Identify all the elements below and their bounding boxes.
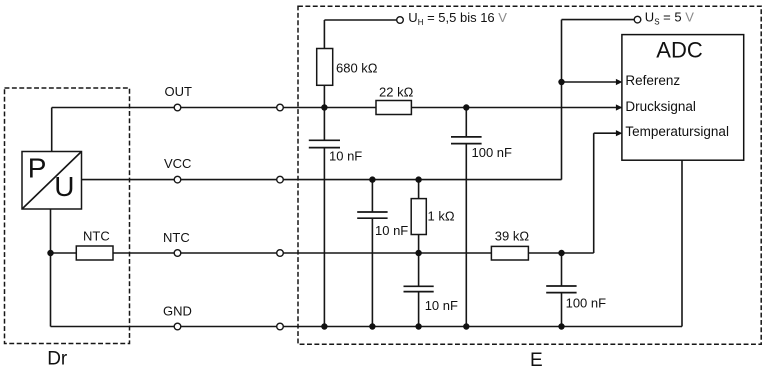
svg-text:100 nF: 100 nF <box>472 145 513 160</box>
svg-text:Drucksignal: Drucksignal <box>625 99 696 114</box>
svg-text:22 kΩ: 22 kΩ <box>379 84 414 99</box>
svg-text:US = 5 V: US = 5 V <box>645 10 694 27</box>
svg-text:10 nF: 10 nF <box>375 223 408 238</box>
svg-text:E: E <box>530 350 543 368</box>
svg-text:Referenz: Referenz <box>625 73 680 88</box>
svg-text:10 nF: 10 nF <box>425 298 458 313</box>
svg-text:10 nF: 10 nF <box>329 149 362 164</box>
svg-text:VCC: VCC <box>164 156 191 171</box>
svg-text:NTC: NTC <box>163 230 190 245</box>
svg-text:680 kΩ: 680 kΩ <box>336 61 378 76</box>
svg-text:GND: GND <box>163 304 192 319</box>
svg-text:NTC: NTC <box>83 228 110 243</box>
svg-text:1 kΩ: 1 kΩ <box>428 209 455 224</box>
svg-text:OUT: OUT <box>165 84 193 99</box>
svg-text:U: U <box>54 171 74 202</box>
svg-text:ADC: ADC <box>656 37 703 62</box>
svg-text:100 nF: 100 nF <box>566 296 607 311</box>
svg-text:39 kΩ: 39 kΩ <box>495 228 530 243</box>
svg-text:Temperatursignal: Temperatursignal <box>625 124 729 139</box>
svg-text:UH = 5,5 bis 16 V: UH = 5,5 bis 16 V <box>408 10 507 27</box>
svg-text:P: P <box>28 153 47 184</box>
svg-text:Dr: Dr <box>47 348 68 368</box>
